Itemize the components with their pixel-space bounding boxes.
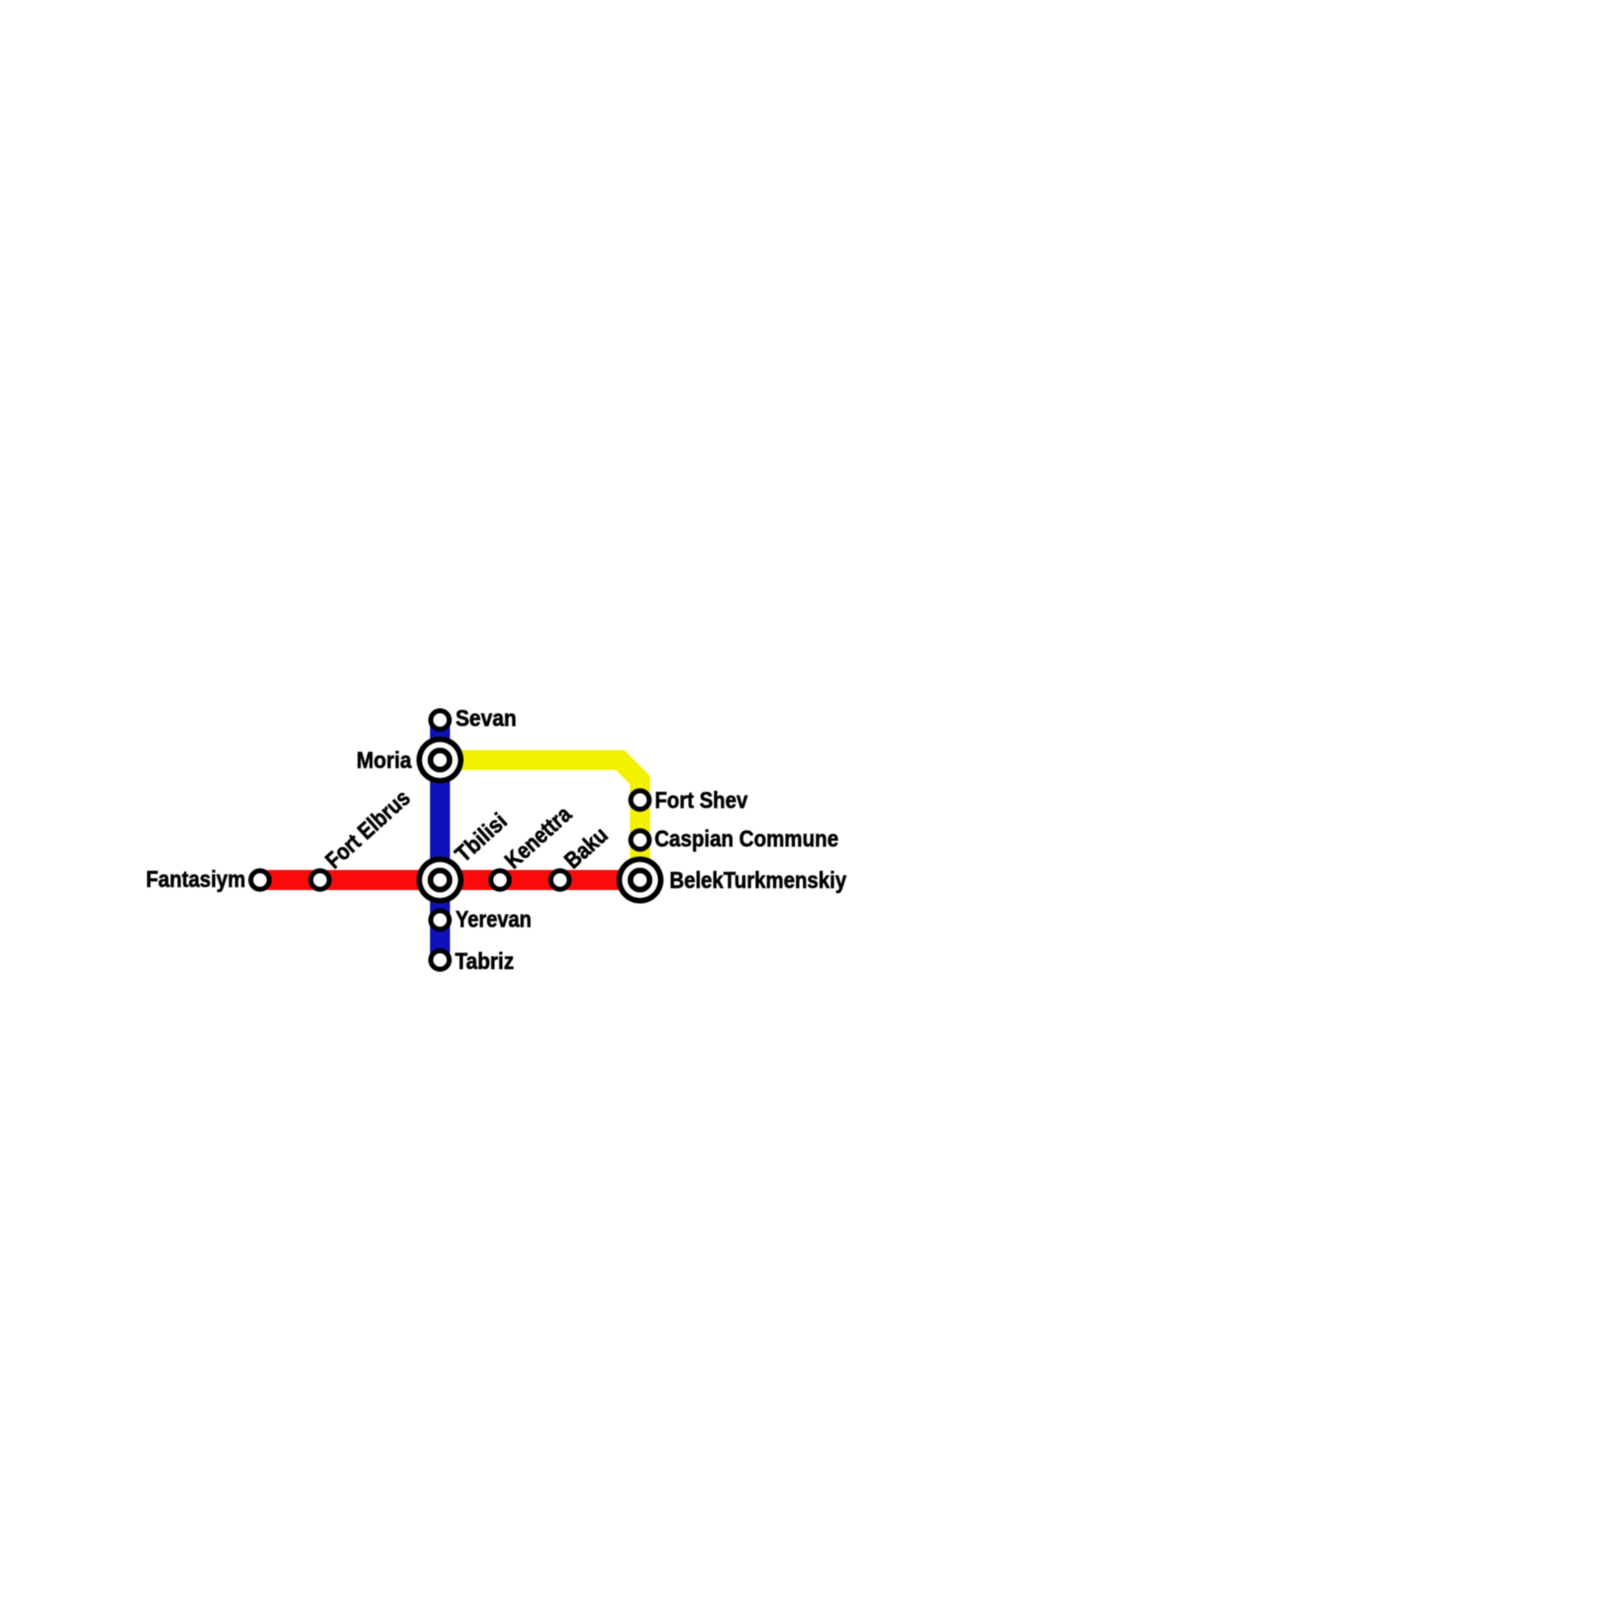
svg-text:Sevan: Sevan (456, 705, 517, 731)
svg-text:Fort Shev: Fort Shev (655, 787, 748, 813)
svg-text:Fantasiym: Fantasiym (146, 866, 246, 892)
svg-text:Tabriz: Tabriz (455, 948, 514, 974)
svg-text:Moria: Moria (357, 747, 412, 773)
svg-text:Yerevan: Yerevan (456, 906, 532, 932)
svg-text:BelekTurkmenskiy: BelekTurkmenskiy (670, 867, 847, 893)
svg-text:Caspian Commune: Caspian Commune (655, 826, 839, 852)
